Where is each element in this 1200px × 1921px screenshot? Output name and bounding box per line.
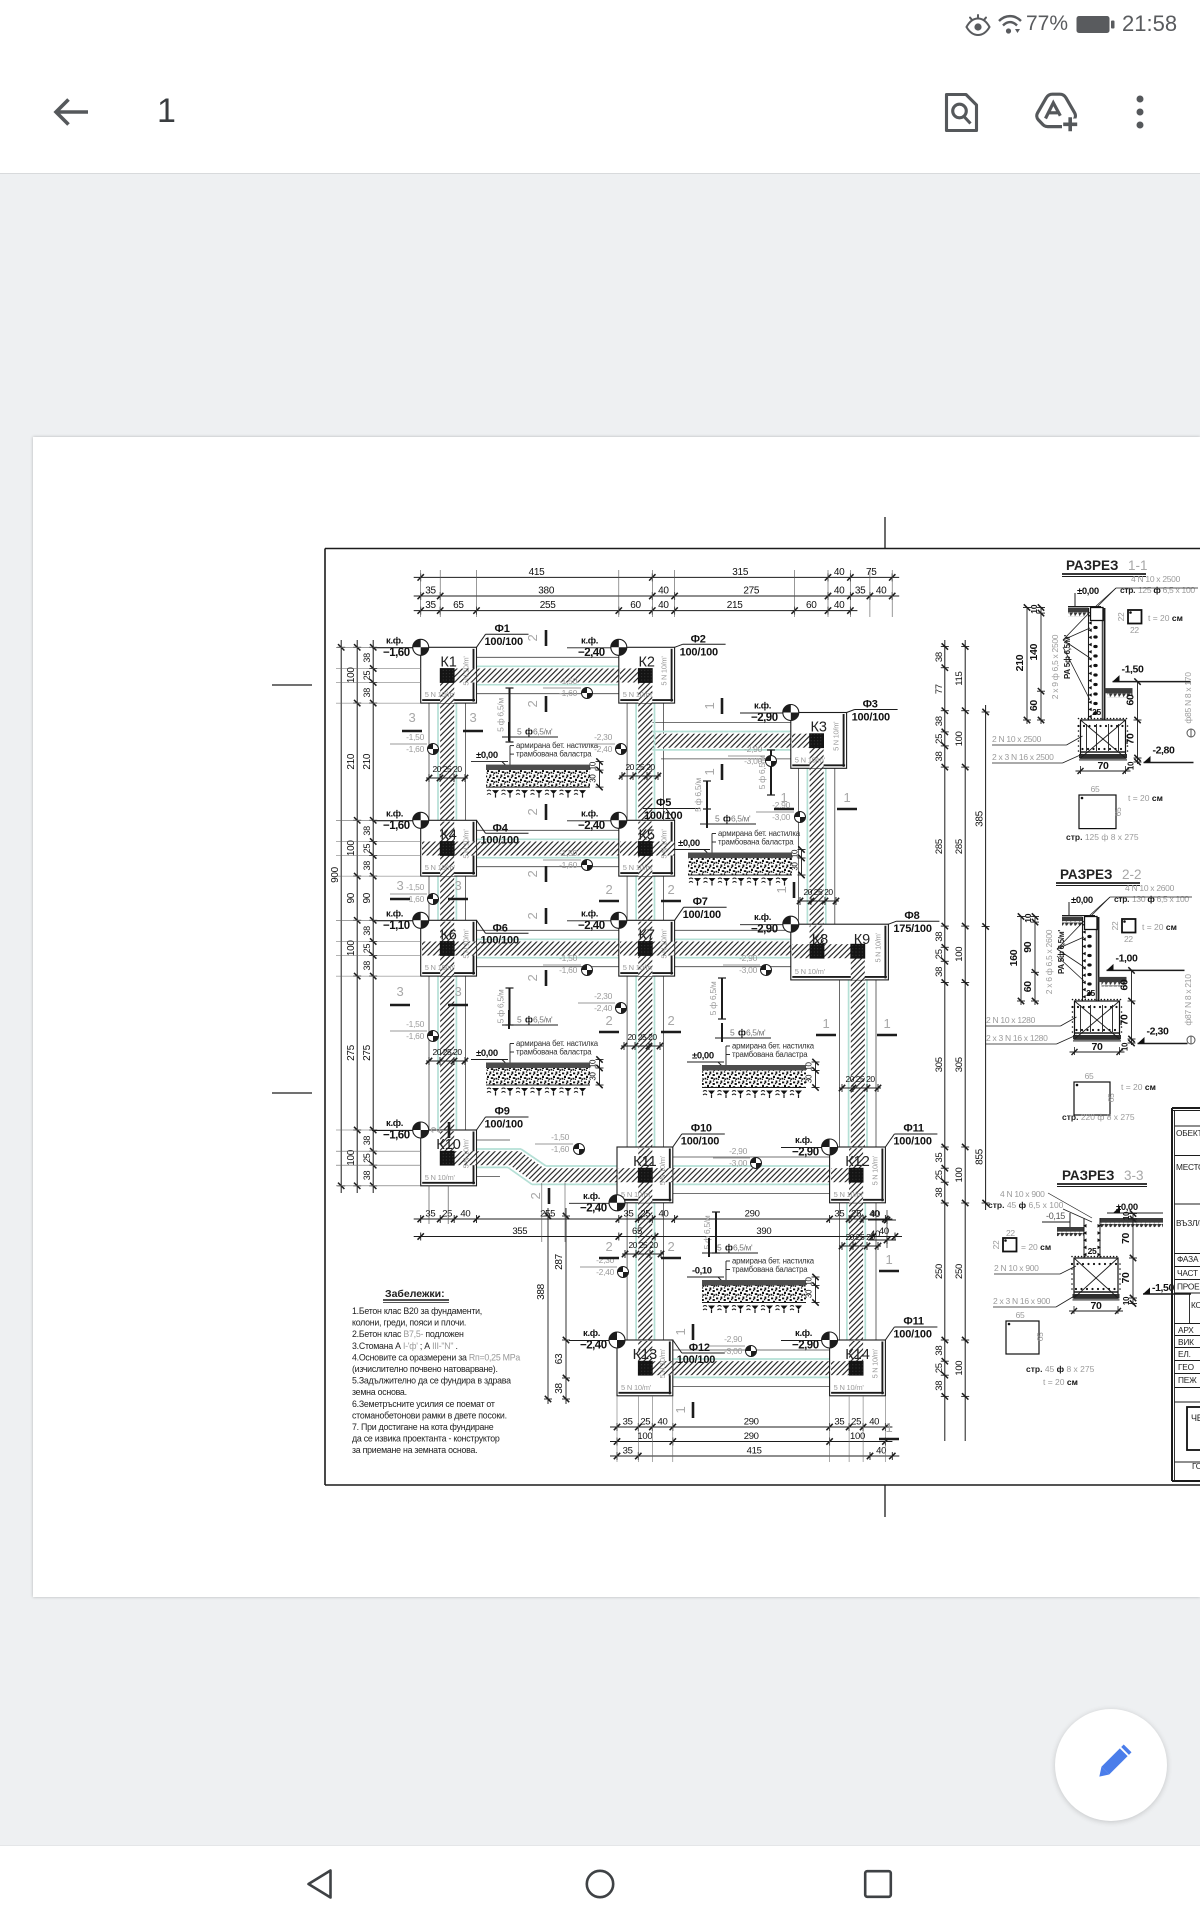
svg-text:-2,40: -2,40 — [596, 1267, 614, 1277]
footing K7 — [619, 920, 675, 976]
svg-text:к.ф.: к.ф. — [581, 808, 598, 819]
svg-text:25: 25 — [1092, 707, 1101, 717]
svg-text:38: 38 — [934, 1188, 945, 1198]
svg-text:175/100: 175/100 — [893, 923, 931, 935]
footing K10 — [421, 1130, 477, 1186]
svg-text:70: 70 — [1097, 760, 1109, 772]
svg-text:К5: К5 — [638, 827, 655, 843]
svg-text:210: 210 — [1014, 654, 1026, 671]
svg-text:к.ф.: к.ф. — [795, 1328, 812, 1339]
strip foundation K4-K5 — [454, 842, 638, 856]
svg-text:5 N 10/m': 5 N 10/m' — [621, 1190, 652, 1199]
svg-text:Ф4: Ф4 — [493, 822, 509, 834]
svg-text:60: 60 — [1022, 981, 1034, 993]
svg-text:250: 250 — [934, 1264, 945, 1279]
svg-text:2 N 10 x 900: 2 N 10 x 900 — [994, 1263, 1039, 1273]
svg-text:25: 25 — [362, 844, 372, 854]
strip outline lines H8 — [673, 1156, 830, 1158]
svg-text:Ф3: Ф3 — [863, 699, 878, 711]
svg-text:275: 275 — [743, 586, 760, 597]
svg-text:−2,40: −2,40 — [578, 647, 605, 659]
svg-text:-3,00: -3,00 — [729, 1158, 747, 1168]
svg-text:1.Бетон клас В20 за фундаменти: 1.Бетон клас В20 за фундаменти, — [352, 1306, 482, 1316]
label F4 — [477, 820, 486, 833]
svg-text:5 N 10/m': 5 N 10/m' — [425, 863, 456, 872]
svg-text:к.ф.: к.ф. — [754, 701, 771, 712]
svg-text:100: 100 — [346, 667, 357, 684]
nav back triangle — [303, 1867, 339, 1901]
label F5 — [666, 809, 675, 821]
svg-text:22: 22 — [991, 1240, 1001, 1249]
svg-text:75: 75 — [866, 567, 877, 578]
svg-text:2: 2 — [668, 882, 675, 897]
svg-text:К1: К1 — [440, 654, 457, 670]
svg-text:285: 285 — [934, 839, 945, 854]
svg-text:100/100: 100/100 — [680, 646, 718, 658]
svg-text:-1,60: -1,60 — [406, 1031, 424, 1041]
hatch through K10 — [440, 1131, 454, 1151]
hatch through K7 — [638, 922, 652, 942]
svg-text:415: 415 — [747, 1446, 762, 1457]
svg-text:60: 60 — [1125, 694, 1137, 706]
svg-text:ВЪЗЛ/И: ВЪЗЛ/И — [1176, 1218, 1200, 1228]
mesh callout C2b vertical — [706, 781, 708, 809]
label F10 — [673, 1134, 682, 1147]
svg-text:40: 40 — [834, 600, 845, 611]
svg-text:30: 30 — [791, 862, 800, 871]
svg-text:1: 1 — [673, 1328, 688, 1335]
label F11 lower — [885, 1327, 894, 1340]
svg-text:2-2: 2-2 — [1122, 867, 1142, 882]
svg-text:10: 10 — [805, 1062, 814, 1071]
svg-text:115: 115 — [954, 671, 965, 685]
svg-text:1-1: 1-1 — [1128, 558, 1148, 573]
svg-text:70: 70 — [1125, 733, 1137, 745]
svg-text:5 N 10/m': 5 N 10/m' — [658, 1348, 667, 1378]
eye comfort icon — [964, 12, 992, 38]
svg-text:ф: ф — [723, 814, 731, 824]
svg-text:-1,50: -1,50 — [406, 732, 424, 742]
svg-text:4 N 10 x 2500: 4 N 10 x 2500 — [1131, 574, 1181, 584]
nav recents square — [863, 1869, 893, 1899]
svg-text:5 N 10/m': 5 N 10/m' — [795, 967, 826, 976]
bottom dimension row 2 — [610, 1441, 892, 1443]
svg-text:25: 25 — [1088, 1246, 1097, 1256]
svg-text:35: 35 — [834, 1417, 844, 1428]
svg-text:2: 2 — [428, 1126, 443, 1133]
svg-text:255: 255 — [540, 600, 557, 611]
svg-text:ГО: ГО — [1192, 1461, 1200, 1471]
svg-text:Ф12: Ф12 — [689, 1342, 710, 1354]
svg-text:5 N 10/m': 5 N 10/m' — [462, 929, 471, 959]
svg-text:5 N 10/m': 5 N 10/m' — [873, 932, 882, 962]
svg-text:2: 2 — [525, 870, 540, 877]
svg-text:390: 390 — [756, 1226, 771, 1237]
svg-text:5 N 10/m': 5 N 10/m' — [462, 829, 471, 859]
right chain 3 — [985, 705, 987, 1210]
svg-text:5 N 10/m': 5 N 10/m' — [660, 829, 669, 859]
svg-text:трамбована баластра: трамбована баластра — [516, 1048, 592, 1057]
svg-text:60: 60 — [1119, 979, 1131, 991]
svg-text:-1,50: -1,50 — [559, 676, 577, 686]
svg-text:7. При достигане на кота фунди: 7. При достигане на кота фундиране — [352, 1422, 494, 1432]
svg-text:к.ф.: к.ф. — [583, 1328, 600, 1339]
svg-text:да се извика проектанта - конс: да се извика проектанта - конструктор — [352, 1434, 500, 1444]
svg-text:20 25 20: 20 25 20 — [628, 1240, 658, 1250]
svg-text:35: 35 — [425, 600, 436, 611]
svg-text:5: 5 — [715, 814, 720, 824]
svg-text:-1,60: -1,60 — [559, 688, 577, 698]
svg-text:2 x 9 ф 6,5 x 2500: 2 x 9 ф 6,5 x 2500 — [1050, 634, 1060, 699]
column K1 — [440, 669, 454, 683]
svg-text:ф87 N 8 x 210: ф87 N 8 x 210 — [1183, 974, 1193, 1026]
svg-text:стр. 220 ф 8 x 275: стр. 220 ф 8 x 275 — [1062, 1112, 1135, 1122]
svg-text:100/100: 100/100 — [644, 810, 682, 822]
section 3-3 footing — [1074, 1258, 1118, 1298]
fold mark top — [884, 517, 886, 548]
svg-text:60: 60 — [630, 600, 641, 611]
clock text — [1122, 11, 1177, 37]
svg-text:215: 215 — [727, 600, 744, 611]
svg-text:стр.: стр. — [1114, 894, 1129, 904]
svg-text:5 N 10/m': 5 N 10/m' — [834, 1383, 865, 1392]
svg-text:-2,30: -2,30 — [596, 1255, 614, 1265]
footing K13 — [617, 1340, 673, 1396]
svg-text:10: 10 — [1122, 1296, 1131, 1305]
title block frame — [1172, 1107, 1200, 1109]
svg-text:за приемане на земната основа.: за приемане на земната основа. — [352, 1445, 477, 1455]
svg-text:3.Стомана А I-'ф' ; А III-": 3.Стомана А I-'ф' ; А III-"N" . — [352, 1341, 458, 1351]
witness lines bottom dims — [616, 1396, 618, 1462]
svg-text:5 N 10/m': 5 N 10/m' — [832, 721, 841, 751]
svg-text:10: 10 — [791, 849, 800, 858]
hatch through K5 — [638, 822, 652, 842]
svg-text:1: 1 — [702, 768, 717, 775]
svg-text:6,5/м': 6,5/м' — [533, 1015, 553, 1025]
svg-text:К13: К13 — [633, 1347, 658, 1363]
svg-text:22: 22 — [1006, 1228, 1015, 1238]
svg-text:1: 1 — [844, 790, 851, 805]
strip foundation V4 K9-K12 — [851, 958, 865, 1168]
svg-text:60: 60 — [806, 600, 817, 611]
hatch through K11 — [638, 1148, 652, 1168]
fold mark bottom — [884, 1485, 886, 1517]
section 3-3 slab and stub — [1057, 1227, 1084, 1232]
svg-text:К6: К6 — [440, 927, 457, 943]
bottom dimension row 1 — [610, 1426, 892, 1428]
svg-text:t = 20 см: t = 20 см — [1043, 1377, 1078, 1387]
svg-text:−1,10: −1,10 — [383, 920, 410, 932]
svg-text:−2,90: −2,90 — [751, 712, 778, 724]
svg-text:земна основа.: земна основа. — [352, 1387, 407, 1397]
svg-text:5 N 10/m': 5 N 10/m' — [834, 1190, 865, 1199]
svg-text:3: 3 — [455, 984, 462, 999]
svg-text:К10: К10 — [436, 1137, 461, 1153]
overflow menu icon — [1130, 92, 1150, 132]
svg-text:5 N 10/m': 5 N 10/m' — [658, 1155, 667, 1185]
strip outline lines V1 — [428, 703, 430, 820]
svg-text:±0,00: ±0,00 — [476, 750, 498, 761]
strip foundation K10 step to K11 — [454, 1151, 638, 1182]
svg-text:ф: ф — [525, 1015, 533, 1025]
svg-text:38: 38 — [362, 926, 372, 936]
column K12 — [849, 1168, 863, 1182]
svg-text:38: 38 — [934, 1346, 945, 1356]
svg-text:10: 10 — [1121, 1042, 1130, 1051]
svg-text:40: 40 — [659, 1209, 669, 1220]
section 3-3 right dims — [1132, 1213, 1134, 1305]
svg-text:70: 70 — [1120, 1272, 1132, 1284]
svg-text:38: 38 — [934, 716, 945, 726]
svg-text:2 x 6 ф 6,5 x 2600: 2 x 6 ф 6,5 x 2600 — [1044, 929, 1054, 994]
mesh callout C3 vertical — [509, 988, 511, 1025]
svg-text:−1,60: −1,60 — [383, 1130, 410, 1142]
label F7 — [675, 907, 684, 920]
svg-text:-1,60: -1,60 — [551, 1144, 569, 1154]
svg-text:Ф5: Ф5 — [656, 797, 671, 809]
svg-text:-1,00: -1,00 — [1116, 952, 1138, 964]
svg-text:20 25 20: 20 25 20 — [845, 1074, 875, 1084]
wifi icon — [996, 11, 1026, 37]
svg-text:855: 855 — [975, 1148, 986, 1165]
svg-text:22: 22 — [1110, 921, 1120, 930]
svg-text:100/100: 100/100 — [893, 1329, 931, 1341]
svg-text:-1,60: -1,60 — [559, 965, 577, 975]
svg-text:30: 30 — [805, 1074, 814, 1083]
svg-text:30: 30 — [589, 774, 598, 783]
svg-text:290: 290 — [744, 1417, 759, 1428]
svg-text:25: 25 — [851, 1417, 861, 1428]
svg-text:-3,00: -3,00 — [724, 1346, 742, 1356]
fold mark left lower — [272, 1092, 312, 1094]
svg-text:2: 2 — [606, 1239, 613, 1254]
svg-text:100: 100 — [954, 947, 965, 962]
svg-text:25: 25 — [362, 671, 372, 681]
svg-text:стр.: стр. — [1120, 585, 1135, 595]
mesh callout C2 vertical — [770, 750, 772, 795]
svg-text:65: 65 — [1113, 807, 1123, 816]
svg-text:АРХ: АРХ — [1178, 1325, 1194, 1335]
svg-text:стр. 125 ф 8 x 275: стр. 125 ф 8 x 275 — [1066, 832, 1139, 842]
svg-text:5 N 10/m': 5 N 10/m' — [660, 929, 669, 959]
svg-text:-1,50: -1,50 — [559, 848, 577, 858]
svg-text:22: 22 — [1130, 625, 1139, 635]
svg-text:10: 10 — [1127, 761, 1136, 770]
svg-text:5 N 10/m': 5 N 10/m' — [462, 656, 471, 686]
svg-text:38: 38 — [554, 1383, 565, 1394]
svg-text:2 N 10 x 2500: 2 N 10 x 2500 — [992, 734, 1042, 744]
mesh callout C4 vertical — [721, 978, 723, 1019]
svg-text:10: 10 — [1122, 1211, 1131, 1220]
page number — [157, 92, 176, 131]
svg-text:трамбована баластра: трамбована баластра — [732, 1050, 808, 1059]
footing K8 K9 — [791, 924, 889, 980]
svg-text:Ф2: Ф2 — [691, 633, 706, 645]
back arrow — [52, 94, 90, 130]
svg-text:287: 287 — [554, 1253, 565, 1270]
svg-text:-3,00: -3,00 — [744, 756, 762, 766]
svg-text:355: 355 — [512, 1226, 527, 1237]
svg-text:100: 100 — [637, 1431, 652, 1442]
svg-text:±0,00: ±0,00 — [678, 838, 700, 849]
svg-text:285: 285 — [954, 839, 965, 854]
svg-text:к.ф.: к.ф. — [386, 808, 403, 819]
svg-text:к.ф.: к.ф. — [386, 1118, 403, 1129]
left dimension chain middle — [356, 640, 358, 1193]
svg-text:38: 38 — [362, 1171, 372, 1181]
svg-text:5 N 10/m': 5 N 10/m' — [623, 963, 654, 972]
svg-text:10: 10 — [1023, 913, 1033, 922]
top dimension chain row 3 — [414, 610, 858, 612]
hatch through K1 — [440, 683, 454, 704]
svg-text:к.ф.: к.ф. — [754, 912, 771, 923]
svg-text:5 ф 6,5/м: 5 ф 6,5/м — [708, 981, 718, 1015]
svg-text:1: 1 — [673, 1406, 688, 1413]
svg-text:90: 90 — [1022, 941, 1034, 953]
svg-text:t = 20 см: t = 20 см — [1128, 793, 1163, 803]
svg-text:210: 210 — [362, 753, 373, 770]
svg-text:ПРОЕК: ПРОЕК — [1177, 1282, 1200, 1292]
svg-text:= 20 см: = 20 см — [1021, 1242, 1051, 1252]
battery icon — [1076, 15, 1118, 35]
svg-text:к.ф.: к.ф. — [795, 1135, 812, 1146]
svg-text:t = 20 см: t = 20 см — [1121, 1082, 1156, 1092]
svg-text:25: 25 — [640, 1209, 650, 1220]
svg-text:Ф1: Ф1 — [495, 623, 510, 635]
document page — [33, 437, 1200, 1597]
svg-text:-2,40: -2,40 — [594, 744, 612, 754]
svg-text:2: 2 — [525, 700, 540, 707]
svg-text:(изчислително почвено натоварв: (изчислително почвено натоварване). — [352, 1364, 498, 1374]
svg-text:100: 100 — [954, 1168, 965, 1183]
svg-text:125 ф 6,5 x 100: 125 ф 6,5 x 100 — [1138, 585, 1195, 595]
strip foundation V1 K6-K10 — [440, 956, 454, 1152]
label F3 — [847, 710, 855, 713]
svg-text:40: 40 — [879, 1226, 889, 1237]
nav home circle — [584, 1868, 616, 1900]
svg-text:38: 38 — [362, 961, 372, 971]
svg-text:-1,50: -1,50 — [406, 1019, 424, 1029]
svg-text:2: 2 — [606, 1013, 613, 1028]
svg-text:38: 38 — [934, 652, 945, 662]
strip outline lines V4 — [839, 980, 841, 1147]
fold mark left upper — [272, 684, 312, 686]
footing K1 — [421, 647, 477, 703]
svg-text:стр. 45 ф 8 x 275: стр. 45 ф 8 x 275 — [1026, 1364, 1095, 1374]
svg-text:1: 1 — [774, 886, 789, 893]
svg-text:t = 20 см: t = 20 см — [1142, 922, 1177, 932]
svg-text:-2,30: -2,30 — [1147, 1026, 1169, 1038]
svg-text:40: 40 — [870, 1229, 880, 1240]
strip foundation K1-K2 — [454, 669, 638, 683]
section 3-3 level -1,50 — [1143, 1293, 1191, 1295]
svg-text:5 N 10/m': 5 N 10/m' — [462, 1138, 471, 1168]
footing K6 — [421, 920, 477, 976]
section 3-3 22 square — [1003, 1238, 1017, 1252]
svg-text:63: 63 — [554, 1353, 565, 1364]
svg-text:5 ф 6,5/м: 5 ф 6,5/м — [496, 989, 506, 1023]
strip foundation V2 K11-K13 — [638, 1182, 652, 1361]
svg-text:ф85 N 8 x 170: ф85 N 8 x 170 — [1183, 672, 1193, 724]
mesh callout C1 vertical — [509, 688, 511, 742]
svg-text:КОН: КОН — [1191, 1300, 1200, 1310]
svg-text:3-3: 3-3 — [1124, 1168, 1144, 1183]
svg-text:ГЕО: ГЕО — [1178, 1362, 1195, 1372]
svg-text:290: 290 — [745, 1209, 760, 1220]
svg-text:К3: К3 — [810, 720, 827, 736]
strip outline lines H7 — [477, 1139, 511, 1141]
svg-text:25: 25 — [362, 944, 372, 954]
bottom dimension row 3 — [610, 1455, 899, 1457]
svg-text:трамбована баластра: трамбована баластра — [732, 1265, 808, 1274]
svg-text:40: 40 — [834, 586, 845, 597]
svg-text:К2: К2 — [638, 654, 655, 670]
hatch through K4 — [440, 822, 454, 842]
svg-text:-0,15: -0,15 — [1046, 1211, 1065, 1221]
svg-text:−2,40: −2,40 — [578, 920, 605, 932]
svg-text:МЕСТОП: МЕСТОП — [1176, 1162, 1200, 1172]
svg-text:38: 38 — [934, 967, 945, 977]
svg-text:315: 315 — [732, 567, 749, 578]
svg-text:РАЗРЕЗ: РАЗРЕЗ — [1066, 558, 1119, 573]
svg-text:к.ф.: к.ф. — [581, 635, 598, 646]
svg-text:5 N 10/m': 5 N 10/m' — [870, 1155, 879, 1185]
svg-text:6.Земетръсните усилия се поема: 6.Земетръсните усилия се поемат от — [352, 1399, 495, 1409]
svg-text:100/100: 100/100 — [485, 1119, 523, 1131]
svg-text:5 ф 6,5/м: 5 ф 6,5/м — [496, 698, 506, 732]
svg-text:22: 22 — [1124, 934, 1133, 944]
svg-text:ПЕЖ: ПЕЖ — [1178, 1375, 1197, 1385]
svg-text:25: 25 — [1086, 988, 1095, 998]
label F12 — [673, 1340, 682, 1353]
svg-text:-2,80: -2,80 — [1153, 745, 1175, 757]
svg-text:3: 3 — [455, 878, 462, 893]
svg-text:305: 305 — [934, 1057, 945, 1072]
svg-text:−2,90: −2,90 — [792, 1340, 819, 1352]
svg-text:ФАЗА: ФАЗА — [1177, 1254, 1199, 1264]
svg-text:к.ф.: к.ф. — [581, 908, 598, 919]
svg-text:40: 40 — [876, 586, 887, 597]
svg-text:100/100: 100/100 — [893, 1136, 931, 1148]
label F8 — [888, 921, 896, 924]
hatch through K12 — [849, 1148, 863, 1168]
witness lines top dims — [420, 570, 422, 617]
column K9 — [851, 944, 865, 958]
svg-text:5 ф 6,5/м: 5 ф 6,5/м — [693, 778, 703, 812]
svg-text:Ф10: Ф10 — [691, 1123, 712, 1135]
svg-text:5 ф 6,5/м: 5 ф 6,5/м — [702, 1215, 712, 1249]
svg-text:65: 65 — [1085, 1071, 1094, 1081]
svg-text:5 N 10/m': 5 N 10/m' — [795, 755, 826, 764]
svg-text:4 N 10 x 2600: 4 N 10 x 2600 — [1125, 883, 1175, 893]
left witness lines — [336, 646, 421, 648]
toolbar — [0, 48, 1200, 174]
column K4 — [440, 842, 454, 856]
svg-text:38: 38 — [362, 688, 372, 698]
hatch through K3 — [810, 748, 824, 769]
svg-text:10: 10 — [805, 1277, 814, 1286]
svg-text:ОБЕКТ: ОБЕКТ — [1176, 1128, 1200, 1138]
svg-text:трамбована баластра: трамбована баластра — [516, 750, 592, 759]
svg-text:275: 275 — [362, 1044, 373, 1061]
svg-text:±0,00: ±0,00 — [476, 1048, 498, 1059]
svg-text:3: 3 — [470, 710, 477, 725]
svg-text:5 N 10/m': 5 N 10/m' — [870, 1348, 879, 1378]
section 1-1 square 65 — [1079, 795, 1116, 829]
svg-text:40: 40 — [658, 586, 669, 597]
svg-text:90: 90 — [362, 892, 373, 903]
svg-text:1: 1 — [781, 790, 788, 805]
